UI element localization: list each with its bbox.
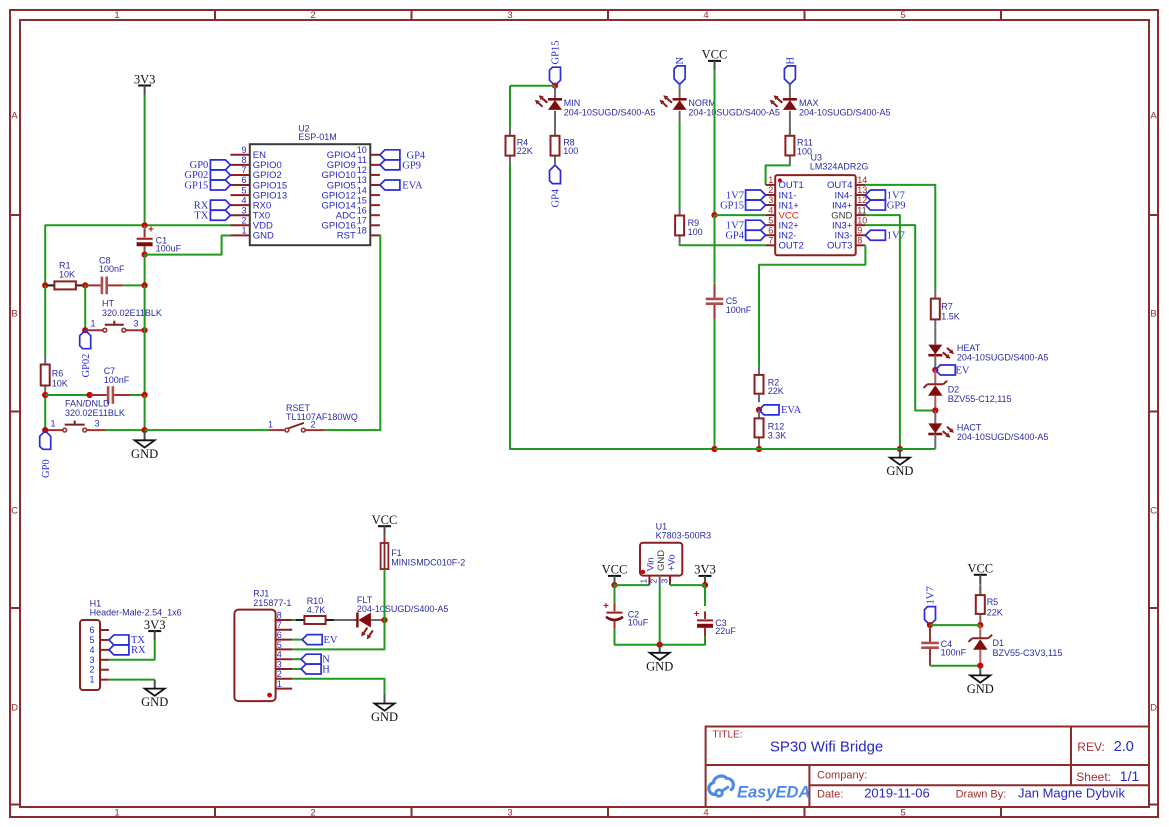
svg-text:5: 5 (900, 10, 905, 21)
resistor R6 (41, 356, 68, 394)
wire (371, 619, 385, 621)
svg-text:1V7: 1V7 (887, 231, 905, 242)
resistor R12 (755, 410, 787, 446)
net flag RX (194, 200, 231, 211)
svg-text:Company:: Company: (817, 769, 867, 781)
power flag VCC (702, 48, 728, 71)
wire (679, 111, 681, 124)
wire (715, 448, 936, 450)
ESP module U2 (230, 124, 380, 246)
LED MIN (535, 95, 655, 117)
svg-text:VCC: VCC (372, 513, 398, 527)
net flag H (301, 664, 330, 675)
wire (714, 70, 716, 215)
wire (715, 214, 766, 216)
wire (144, 285, 146, 395)
wire (554, 164, 556, 165)
svg-text:100nF: 100nF (99, 264, 125, 274)
wire (934, 355, 936, 370)
svg-text:9: 9 (857, 225, 862, 235)
svg-text:204-10SUGD/S400-A5: 204-10SUGD/S400-A5 (957, 432, 1049, 442)
wire (292, 679, 384, 704)
LED HEAT (928, 343, 1048, 362)
junction (82, 327, 88, 333)
svg-text:15: 15 (357, 195, 367, 205)
svg-text:4.7K: 4.7K (307, 605, 326, 615)
svg-text:2.0: 2.0 (1114, 739, 1134, 755)
junction (142, 282, 148, 288)
net flag EVA (759, 405, 802, 416)
wire (144, 247, 146, 255)
LED HACT (928, 422, 1048, 441)
svg-text:204-10SUGD/S400-A5: 204-10SUGD/S400-A5 (357, 604, 449, 614)
wire (325, 235, 380, 430)
wire (510, 164, 715, 449)
svg-text:11: 11 (857, 205, 866, 215)
wire (145, 429, 269, 431)
svg-text:3: 3 (134, 319, 139, 329)
svg-text:1: 1 (277, 679, 282, 689)
wire (865, 225, 935, 410)
wire (144, 395, 146, 430)
wire (679, 84, 681, 99)
svg-text:GND: GND (131, 447, 158, 461)
svg-text:7: 7 (241, 165, 246, 175)
power flag VCC (967, 562, 993, 585)
zener diode D2 (924, 381, 1012, 405)
wire (84, 285, 86, 330)
wire (109, 641, 155, 660)
svg-text:GP15: GP15 (720, 200, 744, 211)
wire (934, 396, 936, 411)
svg-text:5: 5 (89, 635, 94, 645)
resistor R2 (755, 366, 784, 402)
wire (145, 236, 231, 255)
svg-text:6: 6 (89, 625, 94, 635)
svg-text:EVA: EVA (781, 405, 802, 416)
wire (144, 95, 146, 225)
wire (292, 668, 301, 670)
wire (45, 284, 54, 286)
svg-text:A: A (1150, 111, 1157, 122)
svg-text:14: 14 (857, 175, 867, 185)
RJ45 jack RJ1 (234, 589, 292, 701)
resistor R4 (506, 127, 533, 164)
svg-text:13: 13 (357, 175, 367, 185)
svg-text:ESP-01M: ESP-01M (298, 132, 337, 142)
junction (756, 407, 762, 413)
svg-text:1: 1 (638, 579, 648, 584)
LED NORM (660, 95, 780, 117)
svg-text:R5: R5 (987, 597, 999, 607)
svg-text:LM324ADR2G: LM324ADR2G (810, 161, 869, 171)
resistor R9 (675, 207, 703, 244)
net flag EV (935, 365, 970, 376)
svg-text:10K: 10K (52, 378, 68, 388)
svg-text:6: 6 (768, 225, 773, 235)
resistor R1 (46, 261, 85, 290)
svg-text:3: 3 (241, 205, 246, 215)
svg-text:3: 3 (89, 655, 94, 665)
junction (82, 282, 88, 288)
junction (381, 617, 387, 623)
svg-text:8: 8 (857, 236, 862, 246)
svg-text:10: 10 (357, 145, 367, 155)
svg-text:2019-11-06: 2019-11-06 (864, 786, 930, 801)
svg-text:2: 2 (768, 185, 773, 195)
resistor R10 (296, 596, 334, 624)
svg-text:10uF: 10uF (628, 618, 649, 628)
wire (109, 679, 155, 681)
svg-text:3V3: 3V3 (144, 618, 166, 632)
wire (45, 394, 89, 396)
net flag GP4 (380, 150, 426, 162)
svg-text:4: 4 (768, 205, 773, 215)
svg-text:6: 6 (241, 175, 246, 185)
svg-text:VCC: VCC (967, 562, 993, 576)
net flag EVA (380, 180, 423, 192)
svg-text:4: 4 (89, 645, 94, 655)
svg-text:GP02: GP02 (81, 354, 92, 378)
svg-text:1V7: 1V7 (926, 586, 937, 604)
net flag TX (194, 210, 230, 221)
net flag GP0 (40, 431, 52, 478)
svg-text:3V3: 3V3 (134, 72, 156, 86)
wire (929, 625, 931, 634)
svg-text:22K: 22K (517, 146, 533, 156)
svg-text:2: 2 (89, 665, 94, 675)
ground (886, 449, 913, 479)
svg-text:GP4: GP4 (725, 231, 744, 242)
junction (42, 427, 48, 433)
wire (659, 585, 661, 645)
svg-text:REV:: REV: (1077, 740, 1105, 754)
ground (141, 680, 168, 710)
svg-text:1: 1 (114, 808, 119, 819)
resistor R7 (931, 290, 960, 328)
ground (131, 431, 158, 461)
svg-text:1: 1 (51, 419, 56, 429)
wire (614, 576, 616, 585)
wire (615, 584, 650, 586)
svg-text:3: 3 (507, 808, 512, 819)
svg-text:GND: GND (141, 695, 168, 709)
junction (611, 582, 617, 588)
net flag GP02 (184, 170, 230, 181)
svg-text:22uF: 22uF (715, 626, 736, 636)
power flag 3V3 (144, 618, 166, 641)
svg-text:8: 8 (241, 155, 246, 165)
svg-text:1: 1 (768, 175, 773, 185)
svg-text:Date:: Date: (817, 789, 843, 801)
svg-text:204-10SUGD/S400-A5: 204-10SUGD/S400-A5 (799, 107, 891, 117)
svg-text:4: 4 (703, 808, 708, 819)
net flag GP15 (720, 200, 766, 211)
svg-text:GP4: GP4 (551, 188, 562, 207)
svg-text:18: 18 (357, 226, 367, 236)
wire (929, 662, 931, 665)
svg-text:100: 100 (688, 227, 703, 237)
wire (704, 585, 706, 606)
svg-text:GND: GND (371, 710, 398, 724)
svg-text:GND: GND (886, 464, 913, 478)
wire (979, 584, 981, 595)
svg-text:1/1: 1/1 (1120, 768, 1140, 784)
svg-text:N: N (675, 57, 686, 65)
wire (930, 624, 980, 626)
wire (292, 619, 304, 621)
svg-text:RX: RX (131, 645, 146, 656)
wire (44, 394, 46, 430)
wire (144, 225, 146, 230)
svg-text:+: + (694, 609, 700, 620)
svg-text:Drawn By:: Drawn By: (956, 789, 1007, 801)
net flag GP9 (865, 200, 905, 211)
svg-text:VCC: VCC (702, 48, 728, 62)
svg-text:3V3: 3V3 (694, 563, 716, 577)
svg-text:1: 1 (241, 226, 246, 236)
wire (979, 650, 981, 666)
svg-text:204-10SUGD/S400-A5: 204-10SUGD/S400-A5 (564, 107, 656, 117)
wire (45, 225, 230, 285)
power flag VCC (372, 513, 398, 536)
wire (105, 429, 145, 431)
svg-text:GP9: GP9 (402, 160, 421, 171)
svg-text:Header-Male-2.54_1x6: Header-Male-2.54_1x6 (90, 608, 182, 618)
svg-text:9: 9 (241, 145, 246, 155)
wire (45, 429, 63, 431)
wire (714, 215, 716, 283)
svg-text:+: + (603, 601, 609, 612)
capacitor C1 (137, 225, 182, 255)
junction (932, 407, 938, 413)
svg-text:100: 100 (563, 146, 578, 156)
net flag TX (109, 635, 146, 646)
junction (42, 392, 48, 398)
resistor R8 (551, 127, 579, 164)
LED FLT (357, 595, 449, 639)
voltage regulator U1 (638, 522, 711, 586)
wire (130, 394, 145, 396)
wire (789, 111, 791, 136)
wire (930, 665, 980, 667)
svg-text:2: 2 (310, 10, 315, 21)
svg-text:BZV55-C12,115: BZV55-C12,115 (948, 394, 1012, 404)
wire (510, 85, 555, 87)
svg-text:100nF: 100nF (726, 305, 752, 315)
svg-text:GND: GND (967, 682, 994, 696)
junction (927, 622, 933, 628)
junction (657, 642, 663, 648)
svg-text:3: 3 (659, 579, 669, 584)
junction (142, 392, 148, 398)
header H1 (80, 599, 182, 691)
svg-text:204-10SUGD/S400-A5: 204-10SUGD/S400-A5 (688, 107, 780, 117)
wire (766, 164, 790, 185)
svg-text:215877-1: 215877-1 (253, 598, 291, 608)
svg-text:17: 17 (357, 215, 367, 225)
capacitor C5 (706, 283, 752, 319)
wire (554, 86, 556, 100)
svg-text:GND: GND (656, 550, 667, 571)
wire (679, 124, 681, 207)
svg-text:1.5K: 1.5K (941, 311, 960, 321)
wire (615, 629, 660, 645)
power flag 3V3 (694, 563, 716, 586)
net flag 1V7 (925, 586, 937, 625)
net flag GP4 (550, 165, 562, 207)
svg-text:3.3K: 3.3K (768, 431, 787, 441)
svg-text:TL1107AF180WQ: TL1107AF180WQ (286, 412, 358, 422)
op-amp U3 (766, 153, 869, 256)
net flag 1V7 (726, 190, 766, 201)
svg-text:GP0: GP0 (41, 459, 52, 478)
svg-text:3: 3 (768, 195, 773, 205)
junction (977, 622, 983, 628)
svg-text:6: 6 (277, 630, 282, 640)
svg-text:D: D (1150, 703, 1157, 714)
svg-text:RJ1: RJ1 (253, 589, 269, 599)
svg-text:5: 5 (768, 215, 773, 225)
wire (979, 625, 981, 638)
fuse F1 (381, 543, 466, 569)
svg-text:3: 3 (507, 10, 512, 21)
svg-text:B: B (1150, 309, 1156, 320)
svg-text:8: 8 (277, 610, 282, 620)
junction (711, 212, 717, 218)
svg-text:EV: EV (956, 365, 970, 376)
switch HT (91, 299, 162, 333)
svg-text:+: + (148, 225, 154, 236)
svg-text:R7: R7 (941, 302, 953, 312)
wire (670, 584, 705, 586)
junction (711, 446, 717, 452)
junction (702, 582, 708, 588)
svg-text:EasyEDA: EasyEDA (737, 784, 810, 802)
ground (967, 666, 994, 696)
wire (126, 329, 145, 331)
svg-text:A: A (11, 111, 18, 122)
svg-text:7: 7 (768, 236, 773, 246)
net flag 1V7 (726, 220, 766, 231)
net flag GP9 (380, 160, 421, 172)
wire (934, 411, 936, 424)
junction (756, 446, 762, 452)
svg-text:5: 5 (277, 640, 282, 650)
net flag GP15 (184, 180, 230, 191)
svg-text:1: 1 (91, 319, 96, 329)
junction (142, 222, 148, 228)
svg-text:GND: GND (646, 659, 673, 673)
net flag RX (109, 645, 146, 656)
wire (292, 639, 302, 641)
EasyEDA logo (709, 776, 811, 801)
title block (706, 727, 1149, 808)
svg-text:22K: 22K (768, 386, 784, 396)
wire (979, 622, 981, 625)
svg-text:12: 12 (357, 165, 367, 175)
junction (87, 392, 93, 398)
svg-text:7: 7 (277, 620, 282, 630)
svg-text:MINISMDC010F-2: MINISMDC010F-2 (391, 557, 465, 567)
capacitor C2 (603, 601, 649, 629)
svg-text:Sheet:: Sheet: (1076, 770, 1111, 784)
wire (384, 569, 386, 620)
resistor R5 (976, 587, 1003, 623)
wire (87, 429, 105, 431)
svg-text:2: 2 (311, 419, 316, 429)
svg-text:100uF: 100uF (156, 244, 182, 254)
svg-text:EVA: EVA (402, 181, 423, 192)
svg-text:1: 1 (268, 419, 273, 429)
wire (292, 658, 301, 660)
power flag VCC (602, 563, 628, 586)
svg-text:H: H (786, 57, 797, 65)
svg-text:4: 4 (703, 10, 708, 21)
wire (614, 585, 616, 604)
svg-text:GP9: GP9 (887, 200, 906, 211)
svg-text:K7803-500R3: K7803-500R3 (656, 531, 712, 541)
svg-text:R6: R6 (52, 368, 64, 378)
svg-text:H: H (322, 664, 330, 675)
ground (646, 644, 673, 674)
wire (865, 185, 935, 290)
svg-text:10K: 10K (59, 269, 75, 279)
junction (897, 446, 903, 452)
svg-text:GP15: GP15 (184, 180, 208, 191)
svg-text:16: 16 (357, 205, 367, 215)
net flag 1V7 (865, 230, 904, 241)
svg-text:TITLE:: TITLE: (713, 729, 743, 740)
net flag N (674, 57, 686, 85)
wire (934, 328, 936, 345)
junction (932, 367, 938, 373)
svg-text:11: 11 (357, 155, 366, 165)
net flag H (784, 57, 796, 85)
wire (759, 245, 865, 366)
svg-text:Jan Magne Dybvik: Jan Magne Dybvik (1018, 786, 1125, 801)
power flag 3V3 (134, 72, 156, 95)
wire (509, 86, 511, 128)
junction (142, 327, 148, 333)
net flag GP0 (190, 160, 231, 171)
wire (554, 111, 556, 136)
svg-text:5: 5 (900, 808, 905, 819)
net flag GP15 (550, 41, 562, 86)
svg-text:BZV55-C3V3,115: BZV55-C3V3,115 (993, 648, 1063, 658)
resistor R11 (785, 127, 812, 164)
capacitor C7 (90, 366, 130, 404)
svg-text:14: 14 (357, 185, 367, 195)
svg-text:EV: EV (324, 635, 338, 646)
svg-text:RST: RST (337, 231, 356, 242)
svg-text:D2: D2 (948, 384, 960, 394)
svg-text:VCC: VCC (602, 563, 628, 577)
wire (123, 284, 144, 286)
svg-text:SP30 Wifi Bridge: SP30 Wifi Bridge (770, 739, 883, 756)
wire (758, 446, 760, 449)
svg-text:+Vo: +Vo (667, 554, 678, 571)
wire (144, 255, 146, 286)
wire (680, 244, 766, 245)
svg-text:22K: 22K (987, 607, 1003, 617)
LED MAX (770, 95, 891, 117)
svg-text:4: 4 (277, 650, 282, 660)
svg-text:D1: D1 (993, 638, 1005, 648)
wire (934, 434, 936, 449)
svg-text:320.02E11BLK: 320.02E11BLK (102, 308, 162, 318)
svg-text:TX: TX (194, 211, 208, 222)
